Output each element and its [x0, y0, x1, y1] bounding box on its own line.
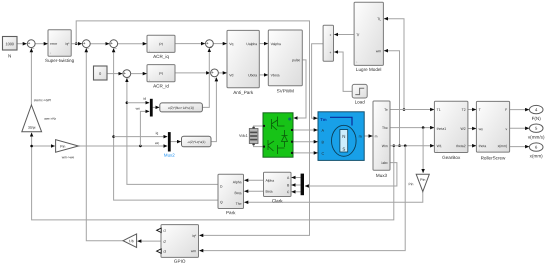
svg-text:SVPWM: SVPWM: [277, 88, 295, 93]
svg-text:u(2)*(flux+Ld*u(1)): u(2)*(flux+Ld*u(1)): [168, 106, 194, 110]
block Load step: [352, 84, 367, 104]
wire Fcn1 to sum5: [202, 48, 209, 107]
wire Mux3 The to GearBox theta1: [390, 126, 434, 129]
svg-text:Beta: Beta: [265, 190, 272, 194]
svg-text:T: T: [479, 108, 481, 112]
constant N=1000: [3, 37, 18, 59]
svg-text:Te: Te: [384, 108, 388, 112]
svg-text:Pin: Pin: [420, 178, 425, 182]
gain 30/pi (wm to Nr): [22, 98, 57, 132]
svg-text:The: The: [382, 126, 388, 130]
svg-text:F(N): F(N): [532, 116, 542, 121]
block Park: [218, 174, 244, 215]
wire Ualpha to Valpha: [259, 43, 268, 45]
block PI ACR_iq: [147, 35, 175, 59]
wire RollerScrew F to outport 4: [510, 109, 529, 111]
svg-text:TL: TL: [377, 17, 381, 21]
wire id branch to Mux1: [127, 102, 149, 104]
wire sum5 to Anti_Park Vq: [213, 43, 226, 45]
svg-text:N: N: [8, 53, 11, 58]
svg-text:↓: ↓: [148, 48, 150, 52]
svg-text:v(mm/s): v(mm/s): [528, 135, 545, 140]
svg-text:Anti_Park: Anti_Park: [233, 90, 254, 95]
wire Clark Beta to Park Beta: [244, 190, 263, 192]
svg-text:Super-twisting: Super-twisting: [45, 58, 75, 63]
wire constant N to sum1: [17, 43, 27, 45]
gain Pin (wm to we): [56, 140, 79, 160]
block Lugre Model: [354, 2, 383, 72]
svg-text:1/b: 1/b: [129, 239, 134, 243]
svg-text:↓: ↓: [356, 60, 358, 64]
svg-text:i1: i1: [163, 229, 166, 233]
svg-text:ACR_id: ACR_id: [153, 83, 169, 88]
svg-text:wm: wm: [376, 49, 381, 53]
svg-text:T1: T1: [437, 108, 441, 112]
svg-text:Q: Q: [220, 200, 223, 204]
svg-text:_: _: [86, 43, 90, 48]
block Fcn2 -u(2)*Lq*u(1): [182, 136, 212, 147]
svg-text:x(mm): x(mm): [498, 144, 508, 148]
svg-text:iq*: iq*: [192, 234, 197, 238]
outport 6 x(mm): [529, 143, 543, 159]
svg-text:_: _: [214, 74, 218, 79]
wire 1/b gain to sumA: [86, 48, 123, 240]
block GearBox: [434, 101, 468, 160]
svg-text:RollerScrew: RollerScrew: [481, 155, 506, 160]
svg-text:iq*: iq*: [66, 42, 71, 46]
svg-text:pulse: pulse: [292, 58, 300, 62]
wire The to Pin down gain: [422, 128, 424, 173]
block Fcn1 u(2)*(flux+Ld*u(1)): [160, 103, 203, 112]
svg-text:theta1: theta1: [437, 127, 447, 131]
wire constant 0 to sum4: [107, 73, 122, 75]
svg-text:+: +: [110, 41, 113, 46]
svg-text:Park: Park: [226, 210, 236, 215]
wire RollerScrew v to outport 5: [510, 127, 529, 129]
svg-text:PI: PI: [159, 42, 163, 46]
wire Fcn2 to sum6: [211, 78, 216, 142]
svg-text:0: 0: [99, 72, 101, 76]
svg-text:Valpha: Valpha: [271, 42, 281, 46]
svg-text:m: m: [375, 134, 378, 138]
svg-text:-u(2)*Lq*u(1): -u(2)*Lq*u(1): [187, 140, 205, 144]
svg-text:Alpha: Alpha: [233, 180, 242, 184]
svg-text:ACR_iq: ACR_iq: [153, 54, 169, 59]
svg-text:Pin: Pin: [409, 182, 414, 186]
wire ACR_iq to sum5: [175, 43, 205, 45]
wire we branch to Mux1: [140, 111, 149, 145]
mux Mux2 iq,we: [155, 131, 175, 157]
mux Mux1 id,we: [136, 97, 153, 117]
block Super-twisting: [45, 30, 75, 63]
svg-text:Vbeta: Vbeta: [271, 73, 280, 77]
svg-text:_: _: [31, 43, 35, 48]
svg-text:iq: iq: [156, 131, 159, 135]
svg-text:_: _: [126, 73, 130, 78]
block PI ACR_id: [147, 65, 175, 89]
wire sum6 to Anti_Park Vd: [218, 72, 226, 74]
svg-text:+: +: [123, 71, 126, 76]
sum1 speed error: [27, 40, 35, 49]
outport 5 v(mm/s): [528, 124, 545, 140]
wire demux to Clark A: [292, 177, 301, 179]
svg-text:+: +: [28, 41, 31, 46]
svg-text:GearBox: GearBox: [442, 155, 461, 160]
sum6 Vd decoupling: [211, 69, 219, 79]
svg-text:↓: ↓: [148, 78, 150, 82]
svg-text:Mux3: Mux3: [376, 173, 388, 178]
wire Mux1 to Fcn1: [153, 106, 160, 108]
wire Park Q feedback to sumB: [112, 48, 218, 200]
block SVPWM: [268, 30, 302, 94]
svg-text:theta2: theta2: [456, 144, 466, 148]
wire inverter C to motor C: [293, 152, 318, 154]
wire GearBox theta2 to RollerScrew theta: [468, 145, 476, 147]
inverter bridge (green): [263, 113, 293, 157]
svg-text:iabc: iabc: [382, 161, 389, 165]
svg-text:Pin: Pin: [60, 145, 65, 149]
svg-text:Lugre Model: Lugre Model: [356, 67, 382, 72]
wire RollerScrew x to outport 6: [510, 146, 529, 148]
svg-text:Ualpha: Ualpha: [246, 42, 257, 46]
svg-text:+: +: [206, 41, 209, 46]
block Anti_Park: [227, 30, 259, 95]
wire wm feedback to speed sum: [32, 133, 396, 220]
wire Te to Lugre TL: [384, 19, 405, 111]
svg-text:30/pi: 30/pi: [28, 126, 36, 130]
wire Wm to Lugre wm: [384, 51, 401, 147]
svg-text:Load: Load: [355, 99, 366, 104]
svg-text:x(mm): x(mm): [530, 153, 543, 158]
wire sumB to ACR_iq: [118, 43, 147, 45]
wire Park D feedback to sum4: [126, 78, 218, 184]
wire GPIO i2 to 1/b gain: [138, 240, 162, 242]
wire 30/pi output to sum1: [30, 48, 32, 105]
PMSM motor (blue): [318, 112, 364, 161]
svg-text:+: +: [329, 51, 331, 55]
wire Pin down gain to Park The: [244, 192, 422, 203]
wire GearBox T2 to RollerScrew T: [468, 109, 476, 111]
svg-text:PI: PI: [159, 72, 163, 76]
svg-text:1000: 1000: [5, 42, 13, 46]
svg-text:Tf: Tf: [356, 33, 359, 37]
wire Ubeta to Vbeta: [259, 74, 268, 76]
svg-text:error: error: [50, 42, 58, 46]
wire demux to Clark B: [292, 184, 301, 186]
svg-text:S: S: [342, 147, 345, 152]
sumB iq* minus iq: [110, 40, 118, 49]
svg-text:F: F: [505, 108, 507, 112]
svg-text:Vd: Vd: [229, 73, 233, 77]
wire iq* feedback to GPIO: [75, 21, 310, 236]
wire sumA to sumB: [90, 43, 109, 45]
wire torque sum to motor Tm: [312, 44, 324, 118]
wire Vdc1 plus: [254, 126, 263, 129]
wire GearBox W2 to RollerScrew ws: [468, 128, 476, 130]
wire wm to Pin gain: [30, 145, 54, 148]
svg-text:↓: ↓: [436, 148, 438, 152]
svg-text:T2: T2: [462, 108, 466, 112]
outport 4 F(N): [529, 105, 543, 121]
wire Mux3 Wm to GearBox W1: [390, 144, 434, 147]
svg-text:Wm: Wm: [382, 144, 388, 148]
svg-text:ws: ws: [479, 127, 483, 131]
wire Clark Alpha to Park Alpha: [244, 179, 263, 181]
wire sum4 to ACR_id: [131, 73, 147, 75]
svg-text:Tm: Tm: [320, 117, 327, 122]
svg-text:Clark: Clark: [272, 198, 283, 203]
wire Load to torque sum: [334, 52, 352, 91]
wire Mux2 to Fcn2: [171, 141, 181, 143]
svg-text:id: id: [143, 97, 146, 101]
svg-text:we: we: [155, 141, 159, 145]
svg-text:+: +: [211, 70, 214, 75]
block Clark: [264, 172, 292, 203]
wire ACR_id to sum6: [175, 72, 210, 74]
constant 0: [94, 66, 108, 80]
svg-text:wm->Nr: wm->Nr: [44, 117, 57, 121]
wire demux to Clark C: [292, 191, 301, 193]
svg-text:wm->we: wm->we: [62, 155, 75, 159]
wire Vdc1 minus: [254, 144, 263, 147]
demux iabc: [301, 174, 304, 196]
svg-text:Mux2: Mux2: [164, 153, 175, 158]
wire pulse to inverter g: [294, 60, 306, 118]
sum5 Vq decoupling: [206, 40, 214, 50]
svg-text:+: +: [83, 41, 86, 46]
svg-text:The: The: [236, 202, 242, 206]
svg-text:i2: i2: [163, 240, 166, 244]
DC source Vdc1: [239, 127, 258, 145]
wire Wm to GPIO wm: [199, 146, 405, 251]
gain Pin down (theta to electrical angle): [409, 174, 430, 191]
svg-text:Alpha: Alpha: [265, 179, 274, 183]
svg-text:_: _: [113, 43, 117, 48]
wire Lugre Tf to torque sum: [334, 34, 354, 36]
svg-text:Beta: Beta: [235, 191, 242, 195]
wire motor m to Mux3: [364, 135, 372, 137]
gain 1/b: [123, 234, 137, 248]
svg-text:N: N: [342, 134, 345, 139]
add block torque sum: [323, 25, 333, 61]
wire Mux3 iabc to demux: [305, 163, 397, 186]
svg-text:W2: W2: [461, 127, 466, 131]
wire sum1 to Super-twisting: [35, 43, 48, 45]
sumA iq* minus i2/b: [82, 40, 90, 49]
svg-text:i3: i3: [163, 250, 166, 254]
svg-text:Vq: Vq: [229, 42, 233, 46]
svg-text:↓: ↓: [49, 51, 51, 55]
svg-text:m: m: [359, 135, 362, 139]
svg-text:Vdc1: Vdc1: [239, 134, 248, 138]
block GPIO: [157, 225, 199, 264]
svg-text:+: +: [210, 45, 213, 50]
block Mux3 (measurement demux): [373, 101, 390, 178]
svg-text:↓: ↓: [478, 148, 480, 152]
svg-text:we: we: [136, 107, 140, 111]
svg-text:+: +: [329, 33, 331, 37]
wire inverter B to motor B: [293, 141, 318, 143]
svg-text:wm: wm: [191, 249, 196, 253]
svg-text:v: v: [505, 127, 507, 131]
svg-text:C: C: [321, 152, 324, 156]
wire Pin output we to Mux2: [78, 145, 167, 148]
svg-text:Ubeta: Ubeta: [248, 73, 257, 77]
block RollerScrew: [476, 101, 509, 160]
sum4 id error: [123, 70, 131, 79]
wire Super-twisting iq* to sumA: [71, 43, 82, 45]
svg-text:GPIO: GPIO: [174, 259, 186, 264]
svg-text:stemc->GPI: stemc->GPI: [34, 98, 52, 102]
wire inverter A to motor A: [293, 129, 318, 131]
wire iq branch to Mux2: [114, 136, 168, 138]
wire Mux3 Te to GearBox T1: [390, 109, 434, 111]
